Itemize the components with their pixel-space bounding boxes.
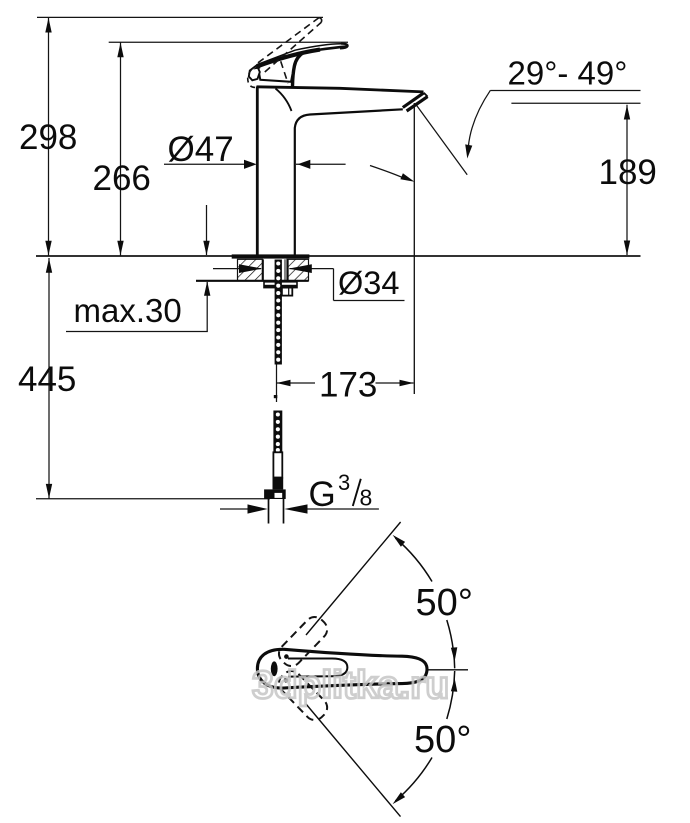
svg-text:Ø47: Ø47 — [168, 130, 234, 169]
svg-text:3: 3 — [338, 470, 350, 495]
svg-text:8: 8 — [360, 485, 373, 511]
svg-text:298: 298 — [19, 118, 77, 157]
svg-text:173: 173 — [319, 366, 377, 405]
svg-text:max.30: max.30 — [74, 292, 182, 329]
svg-text:50°: 50° — [416, 582, 473, 624]
svg-text:189: 189 — [599, 153, 657, 192]
svg-text:3dplitka.ru: 3dplitka.ru — [252, 664, 449, 707]
svg-text:29°- 49°: 29°- 49° — [508, 55, 628, 92]
svg-text:50°: 50° — [414, 719, 471, 761]
svg-text:G: G — [309, 475, 336, 514]
svg-text:Ø34: Ø34 — [338, 265, 399, 301]
svg-text:266: 266 — [93, 159, 151, 198]
svg-text:445: 445 — [18, 360, 76, 399]
